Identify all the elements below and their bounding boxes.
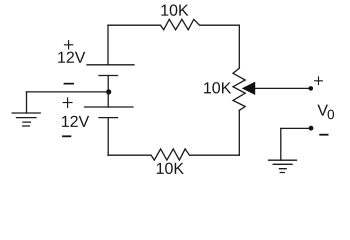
battery V1 positive plate — [87, 64, 134, 66]
wire from output minus terminal to right ground — [281, 127, 311, 129]
node output plus terminal dot — [309, 86, 314, 91]
potentiometer R3 value label 10K — [204, 82, 231, 93]
potentiometer wiper arrow — [242, 82, 255, 95]
wire left vertical from top wire to battery V1 — [107, 25, 109, 65]
wire right vertical from top wire to potentiometer — [238, 25, 240, 68]
battery V2 value label 12V — [62, 116, 89, 127]
wire from battery V2 down to bottom wire — [107, 118, 109, 156]
wire from midpoint junction to left ground — [27, 91, 109, 93]
wire top with resistor R1 zigzag — [108, 19, 239, 30]
resistor R1 value label 10K — [161, 4, 188, 15]
potentiometer R3 zigzag — [233, 68, 245, 110]
battery V1 plus label — [65, 41, 73, 49]
node junction dot at battery midpoint — [106, 89, 111, 94]
ground symbol left — [12, 113, 40, 126]
wire left ground drop — [26, 92, 28, 113]
battery V2 positive plate — [85, 106, 134, 108]
output minus label — [319, 134, 328, 136]
battery V2 minus label — [62, 135, 71, 137]
wire bottom with resistor R2 zigzag — [108, 149, 239, 160]
node output minus terminal dot — [309, 126, 314, 131]
wire right vertical from potentiometer to bottom wire — [238, 110, 240, 155]
wire right ground drop — [280, 128, 282, 160]
resistor R2 value label 10K — [157, 163, 184, 174]
battery V1 minus label — [64, 83, 74, 85]
wire from wiper arrow to output plus terminal — [255, 87, 311, 89]
ground symbol right — [269, 160, 297, 172]
battery V1 value label 12V — [58, 52, 85, 63]
battery V2 negative plate — [99, 117, 118, 119]
output plus label — [315, 77, 323, 85]
wire between battery V1 and battery V2 — [107, 76, 109, 108]
output voltage label V0 — [317, 105, 328, 116]
battery V2 plus label — [63, 98, 72, 108]
battery V1 negative plate — [99, 75, 118, 77]
